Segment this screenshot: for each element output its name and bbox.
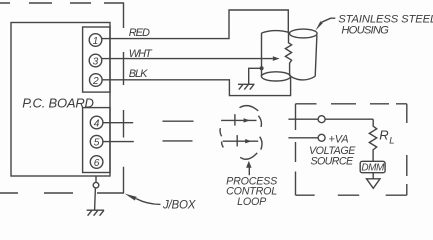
- P.C. board outline: [11, 23, 110, 177]
- pin 1: [89, 34, 102, 47]
- svg-text:J/BOX: J/BOX: [162, 200, 197, 212]
- down arrow terminal under DMM: [367, 179, 381, 189]
- svg-text:DMM: DMM: [361, 163, 385, 174]
- svg-text:WHT: WHT: [129, 48, 153, 60]
- junction dot on housing shield: [260, 66, 264, 70]
- P.C. board ground wire: [94, 188, 97, 210]
- DMM lead: [372, 173, 374, 179]
- voltage source box right dashed edge: [406, 104, 408, 195]
- svg-text:BLK: BLK: [129, 68, 148, 80]
- svg-text:RED: RED: [129, 27, 150, 39]
- svg-text:R: R: [379, 128, 388, 143]
- wire WHT (pin 3 to sensor, arrow): [102, 56, 280, 61]
- wire loop-B into source box: [288, 137, 318, 139]
- process control loop pointer arrow: [246, 161, 252, 175]
- svg-text:3: 3: [93, 56, 99, 67]
- voltage source box left dashed edge: [295, 104, 297, 195]
- svg-text:LOOP: LOOP: [237, 196, 267, 208]
- terminal strip upper (pins 1,3,2): [83, 27, 110, 92]
- leader to STAINLESS STEEL HOUSING: [315, 18, 335, 30]
- label RL: [379, 128, 394, 147]
- svg-text:+VA: +VA: [329, 134, 349, 146]
- svg-text:SOURCE: SOURCE: [310, 155, 354, 167]
- resistor RL: [369, 119, 376, 161]
- svg-text:2: 2: [92, 76, 99, 87]
- pin 2: [90, 74, 103, 87]
- wire loop-A through control loop with arrow and tick: [221, 114, 256, 126]
- wire loop-A mid dash: [163, 120, 194, 122]
- wire loop-A stub from pin 4: [103, 122, 133, 124]
- DMM meter box: [360, 161, 385, 172]
- P.C. board ground terminal circle: [93, 182, 99, 188]
- ground wire from housing: [249, 68, 262, 84]
- J/BOX enclosure top dashed edge: [0, 2, 124, 4]
- wire BLK (pin 2 to housing bottom): [102, 77, 290, 96]
- sensing element resistor inside housing: [285, 33, 291, 77]
- svg-text:4: 4: [94, 118, 100, 129]
- wire terminal to RL: [325, 118, 373, 120]
- svg-text:L: L: [389, 136, 394, 147]
- pin 3: [89, 54, 102, 67]
- J/BOX enclosure right dashed edge: [123, 2, 125, 193]
- pin 5: [90, 135, 103, 148]
- wire loop-B mid dash: [163, 140, 193, 142]
- svg-text:P.C. BOARD: P.C. BOARD: [22, 96, 93, 111]
- wire loop-B stub from pin 5: [103, 141, 134, 143]
- svg-text:1: 1: [93, 36, 99, 47]
- terminal circle upper: [318, 116, 325, 123]
- P.C. board ground stub: [95, 176, 97, 182]
- ground symbol (J/BOX): [87, 210, 104, 216]
- voltage source box top dashed edge: [296, 103, 407, 105]
- terminal strip lower (pins 4,5,6): [83, 108, 110, 173]
- terminal circle lower (+VA): [318, 134, 325, 141]
- svg-text:HOUSING: HOUSING: [341, 25, 389, 37]
- svg-text:6: 6: [94, 158, 100, 169]
- wire RED (pin 1 to housing top): [102, 10, 288, 39]
- voltage source box bottom dashed edge: [296, 194, 407, 196]
- pin 6: [90, 156, 103, 169]
- ground symbol (housing): [238, 84, 255, 89]
- pin 4: [90, 116, 103, 129]
- J/BOX enclosure bottom dashed edge: [0, 192, 124, 194]
- wire loop-B through control loop with arrow and tick: [223, 135, 259, 146]
- leader to J/BOX: [125, 194, 161, 205]
- process control loop dashed ellipse: [220, 106, 262, 160]
- wire loop-A into source box: [288, 118, 318, 120]
- svg-text:5: 5: [94, 138, 100, 149]
- stainless steel housing cylinder: [261, 29, 317, 81]
